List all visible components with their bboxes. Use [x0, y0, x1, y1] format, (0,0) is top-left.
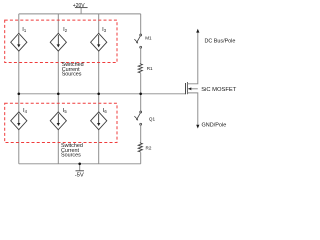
current source I3	[91, 33, 107, 51]
wire M1 branch top	[140, 14, 142, 34]
-5V rail bar	[76, 170, 85, 172]
svg-text:I3: I3	[102, 27, 107, 33]
svg-text:+20V: +20V	[73, 3, 85, 9]
switch Q1	[134, 111, 141, 125]
wire Q1 to R2	[140, 125, 142, 142]
wire column2 bottom	[57, 130, 59, 164]
junction dot mid bus R branch	[139, 93, 142, 96]
MOSFET source lead	[187, 93, 197, 125]
wire mid bus to Q1	[140, 94, 142, 111]
resistor R2	[138, 142, 142, 152]
wire column2 mid	[57, 51, 59, 94]
junction dot bottom bus -5V stub	[78, 163, 81, 166]
wire column1 bottom	[18, 130, 20, 164]
svg-text:GND/Pole: GND/Pole	[202, 122, 227, 128]
svg-text:I6: I6	[103, 108, 108, 114]
wire M1 to R1	[140, 48, 142, 63]
wire column2 lower	[57, 94, 59, 112]
svg-text:I5: I5	[63, 108, 68, 114]
wire column3 lower	[98, 94, 100, 112]
svg-text:R1: R1	[147, 66, 153, 71]
svg-text:I1: I1	[22, 27, 27, 33]
MOSFET U1 gate bar	[185, 83, 187, 94]
wire column1 lower	[18, 94, 20, 112]
GND/Pole arrow (down)	[196, 125, 199, 129]
current source I2	[50, 33, 66, 51]
wire column3 top	[98, 14, 100, 34]
svg-text:I2: I2	[63, 27, 68, 33]
svg-text:R2: R2	[146, 146, 152, 151]
wire R1 to mid bus	[140, 73, 142, 94]
+20V rail bar	[75, 7, 88, 9]
svg-text:Q1: Q1	[149, 117, 156, 122]
resistor R1	[138, 63, 142, 73]
svg-text:-5V: -5V	[75, 172, 84, 178]
current source I4	[11, 112, 27, 130]
MOSFET drain lead	[187, 32, 197, 84]
svg-text:I4: I4	[23, 108, 28, 114]
current source I1	[11, 33, 27, 51]
junction dot mid bus col2	[57, 93, 60, 96]
wire column2 top	[57, 14, 59, 34]
wire top bus (+20V rail)	[19, 13, 141, 15]
MOSFET channel bar	[186, 82, 188, 94]
DC Bus/Pole arrow (up)	[196, 29, 199, 33]
junction dot mid bus col3	[97, 93, 100, 96]
wire column3 mid	[98, 51, 100, 94]
svg-text:Sources: Sources	[62, 72, 82, 78]
switch M1	[134, 34, 141, 48]
MOSFET body lead arrow	[188, 88, 198, 90]
wire column3 bottom	[98, 130, 100, 164]
svg-text:SiC MOSFET: SiC MOSFET	[201, 87, 237, 93]
red dashed box: switched current sources (bottom)	[5, 103, 117, 142]
current source I6	[91, 112, 107, 130]
wire column1 mid	[18, 51, 20, 94]
svg-text:Sources: Sources	[61, 153, 81, 159]
red dashed box: switched current sources (top)	[5, 20, 117, 62]
current source I5	[50, 112, 66, 130]
wire -5V stub	[79, 164, 81, 171]
wire bottom bus (-5V rail)	[19, 163, 141, 165]
wire R2 to bottom bus	[140, 152, 142, 164]
svg-text:DC Bus/Pole: DC Bus/Pole	[205, 39, 236, 45]
wire +20V stub	[80, 8, 82, 14]
junction dot mid bus col1	[18, 93, 21, 96]
wire column1 top	[18, 14, 20, 34]
wire mid bus (gate node)	[19, 93, 186, 95]
svg-text:M1: M1	[145, 35, 152, 40]
